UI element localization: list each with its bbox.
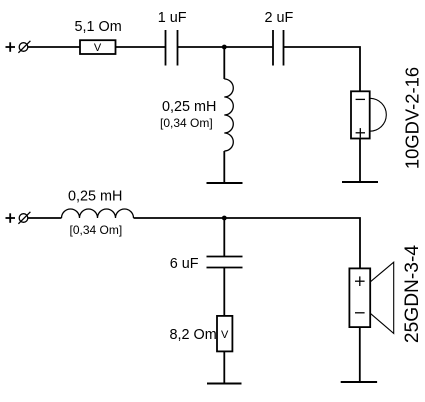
input terminal plus polarity label (top channel) <box>6 42 16 52</box>
ground under tweeter <box>342 181 378 183</box>
svg-text:2 uF: 2 uF <box>265 10 294 26</box>
wire: R2 to ground <box>223 351 225 383</box>
speaker BA2 woofer 25GDN-3-4 <box>349 262 393 333</box>
svg-text:6 uF: 6 uF <box>170 256 199 272</box>
wire: node A down to L1 <box>223 47 225 79</box>
input terminal XS1 (top channel, open socket circle with slash) <box>18 41 30 53</box>
capacitor C3 6 uF (horizontal plates) <box>207 257 243 268</box>
svg-text:1 uF: 1 uF <box>158 10 187 26</box>
input terminal XS2 (bottom channel, open socket circle with slash) <box>18 212 30 224</box>
wire: R1 to C1 <box>116 46 166 48</box>
wire: C3 to R2 <box>223 268 225 316</box>
wire: C1 to C2 (passes node A) <box>178 46 274 48</box>
ground under woofer <box>341 381 377 383</box>
svg-text:0,25 mH: 0,25 mH <box>162 99 216 115</box>
node A junction dot (top channel) <box>222 45 227 50</box>
wire: C2 to tweeter (corner at top right) <box>284 47 361 91</box>
resistor R2 8.2 ohm (vertical, V = 5 W power mark) <box>217 316 232 352</box>
wire: woofer to ground <box>359 327 361 382</box>
speaker BA1 tweeter 10GDV-2-16 <box>351 91 386 138</box>
inductor L2 0.25 mH (horizontal coil, 4 arcs) <box>62 209 134 218</box>
resistor R1 5.1 ohm (V = 5 W power mark) <box>80 40 116 54</box>
wire: L1 to ground <box>223 151 225 183</box>
svg-text:V: V <box>221 329 229 341</box>
ground under L1 <box>207 182 243 184</box>
svg-text:0,25 mH: 0,25 mH <box>68 189 122 205</box>
inductor L1 0.25 mH (vertical coil, 4 arcs) <box>224 79 233 151</box>
wire: L2 to node B <box>134 217 225 219</box>
capacitor C2 2 uF <box>273 30 284 66</box>
wire: tweeter to ground <box>359 139 361 183</box>
svg-text:V: V <box>94 42 102 54</box>
wire: node B down to C3 <box>223 218 225 257</box>
input terminal plus polarity label (bottom channel) <box>6 213 16 223</box>
ground under R2 <box>207 383 242 385</box>
svg-text:25GDN-3-4: 25GDN-3-4 <box>402 245 423 343</box>
capacitor C1 1 uF <box>166 30 178 66</box>
svg-text:[0,34 Om]: [0,34 Om] <box>160 116 213 130</box>
wire: terminal to L2 <box>28 217 62 219</box>
wire: node B to woofer (corner at right) <box>224 218 360 268</box>
svg-text:10GDV-2-16: 10GDV-2-16 <box>401 67 422 169</box>
node B junction dot (bottom channel) <box>222 216 227 221</box>
wire: terminal to R1 <box>28 46 80 48</box>
svg-text:8,2 Om: 8,2 Om <box>170 327 217 343</box>
svg-text:5,1 Om: 5,1 Om <box>75 19 122 35</box>
svg-text:[0,34 Om]: [0,34 Om] <box>70 223 123 237</box>
